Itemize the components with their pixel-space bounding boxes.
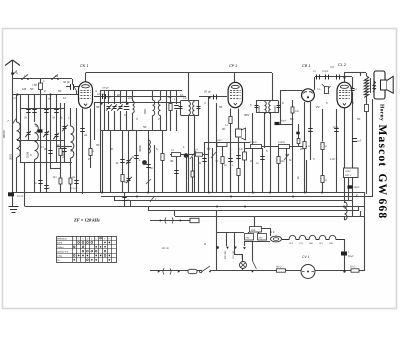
svg-text:11: 11 [68,116,71,120]
svg-text:s: s [16,71,18,75]
svg-text:CB 1: CB 1 [302,64,310,68]
svg-text:08010: 08010 [2,130,6,138]
svg-text:±18V: ±18V [345,170,351,173]
svg-text:M4: M4 [53,176,57,179]
svg-text:4n: 4n [215,159,219,163]
svg-text:0.1: 0.1 [171,149,175,152]
svg-text:2n: 2n [110,147,114,151]
svg-text:0.1: 0.1 [195,149,199,152]
svg-text:1n: 1n [180,93,184,97]
svg-text:ß: ß [297,176,299,180]
svg-text:4008: 4008 [138,145,142,152]
svg-text:a: a [204,242,206,246]
svg-text:0.1: 0.1 [225,124,229,127]
svg-text:100: 100 [183,97,188,100]
svg-text:868: 868 [251,229,256,232]
svg-text:300: 300 [128,97,133,100]
svg-text:3001: 3001 [9,153,13,160]
svg-text:100 pF: 100 pF [97,93,105,96]
svg-text:28µF: 28µF [354,186,360,189]
svg-text:Horny: Horny [379,104,385,121]
svg-text:CF 1: CF 1 [229,64,237,68]
svg-text:CL 2: CL 2 [338,63,347,67]
svg-text:CV 1: CV 1 [302,255,310,259]
svg-text:2n: 2n [44,147,48,151]
svg-text:140: 140 [239,148,244,151]
svg-text:CK 1: CK 1 [80,64,88,68]
svg-text:2n: 2n [117,93,121,97]
svg-text:Tasten: Tasten [57,246,64,249]
svg-text:GW: GW [376,174,388,197]
svg-text:110-127: 110-127 [232,250,235,259]
svg-text:1302: 1302 [61,151,65,158]
svg-text:S 1: S 1 [270,230,275,234]
svg-text:0.2µF: 0.2µF [322,70,329,73]
svg-text:2n: 2n [222,127,226,131]
svg-text:100: 100 [122,101,127,104]
svg-text:80 Hz: 80 Hz [162,247,169,250]
svg-text:1 nF: 1 nF [46,98,51,101]
svg-text:11: 11 [55,74,58,78]
svg-text:50: 50 [107,95,111,99]
svg-text:60: 60 [290,117,294,121]
svg-text:2V: 2V [316,105,320,109]
svg-text:ZF = 128 kHz: ZF = 128 kHz [73,218,100,223]
svg-text:100µF: 100µF [102,87,109,90]
svg-text:Lang: Lang [57,255,63,258]
svg-text:Band: Band [57,242,63,245]
svg-text:0.1µF: 0.1µF [71,187,78,190]
svg-text:90V: 90V [244,113,249,117]
svg-text:1003: 1003 [273,105,277,112]
svg-text:+: + [348,250,350,254]
svg-text:50: 50 [357,117,361,121]
svg-text:30: 30 [168,95,172,99]
svg-text:Drehko-Ant.: Drehko-Ant. [57,250,69,253]
svg-text:1µF: 1µF [357,140,362,143]
svg-text:6.3kΩ: 6.3kΩ [278,141,285,144]
svg-text:50: 50 [30,87,34,91]
svg-text:r: r [24,74,25,78]
svg-text:30: 30 [170,159,174,163]
svg-text:50: 50 [207,147,211,151]
svg-text:50 µF: 50 µF [204,90,211,94]
svg-text:88 Ω: 88 Ω [276,266,281,269]
svg-text:700: 700 [308,130,313,133]
svg-text:50: 50 [96,143,100,147]
svg-text:Mascot: Mascot [376,125,388,168]
svg-text:668: 668 [376,199,388,220]
svg-text:40µF: 40µF [281,120,287,123]
svg-text:30: 30 [96,105,100,109]
svg-text:500 V: 500 V [345,174,352,177]
svg-text:30: 30 [285,153,289,157]
svg-text:Wellenber.: Wellenber. [57,237,68,240]
svg-text:50 pF: 50 pF [63,80,70,84]
svg-text:50µF: 50µF [348,255,354,258]
svg-text:50 Ω: 50 Ω [350,266,355,269]
svg-text:≈12 V: ≈12 V [241,254,244,260]
svg-text:50: 50 [219,105,223,109]
svg-text:4.5kΩ: 4.5kΩ [250,141,257,144]
svg-text:220-240: 220-240 [224,250,227,259]
svg-text:1n: 1n [63,96,67,100]
svg-text:2nF: 2nF [330,66,335,69]
svg-text:1002: 1002 [257,105,261,112]
svg-text:600: 600 [143,109,147,114]
svg-text:2040: 2040 [216,139,222,142]
svg-text:60 V: 60 V [333,126,339,129]
svg-text:1M: 1M [22,87,27,91]
svg-text:50: 50 [143,125,147,129]
svg-text:10 nF: 10 nF [17,195,24,198]
svg-text:300: 300 [281,160,286,163]
svg-text:50: 50 [58,89,62,93]
svg-text:2n: 2n [300,147,304,151]
svg-text:2B: 2B [84,134,87,137]
svg-text:90 V: 90 V [332,158,338,161]
svg-text:1008: 1008 [26,151,30,158]
svg-text:1nF: 1nF [13,97,18,100]
